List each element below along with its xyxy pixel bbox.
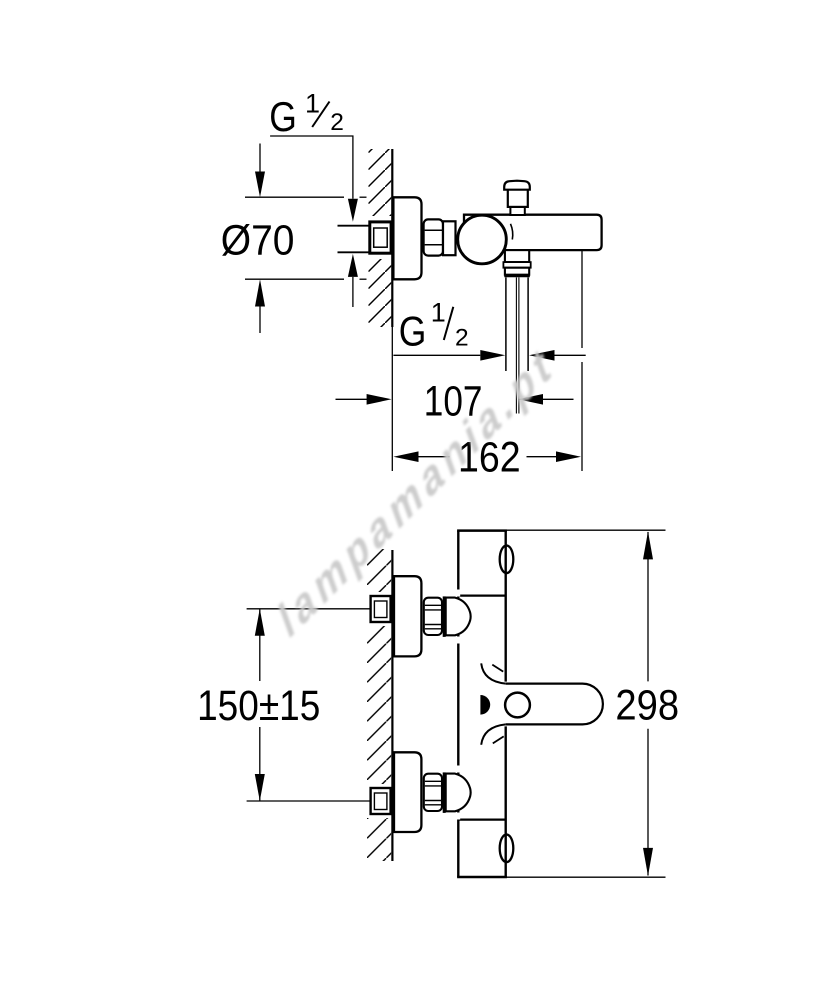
hose outer left line xyxy=(505,277,507,371)
bottom hex nut (bottom view) xyxy=(424,774,442,811)
top connection bar xyxy=(443,596,446,637)
Ø70 upper arrow xyxy=(255,172,265,198)
arrow right to hose left edge xyxy=(480,350,505,361)
150 extension line bottom xyxy=(247,800,371,802)
bottom escutcheon (bottom view) xyxy=(394,752,421,832)
spout bottom flare xyxy=(481,724,506,744)
bottom hex nut facet lines xyxy=(425,780,441,782)
spout outlet circle xyxy=(505,693,530,718)
298 extension line top xyxy=(506,529,666,531)
shower hose connector ring xyxy=(503,262,530,268)
bottom cap ellipse detail xyxy=(500,835,514,863)
dimension Ø70 extension line bottom xyxy=(245,278,344,280)
connector bottom bar xyxy=(504,275,530,278)
arrow up xyxy=(255,609,265,636)
spout U profile xyxy=(506,684,603,725)
150 extension line top xyxy=(247,608,371,610)
svg-text:G: G xyxy=(399,308,427,355)
spout half-disc detail xyxy=(480,695,490,715)
fraction slash (top G 1/2) xyxy=(312,102,329,128)
Ø70 lower arrow tail xyxy=(259,307,261,334)
diverter knob stem xyxy=(510,207,524,215)
wall hatching (bottom view) xyxy=(367,549,391,861)
dimension 150±15 line lower part xyxy=(259,727,261,801)
svg-text:2: 2 xyxy=(455,324,469,351)
bottom connection cone xyxy=(446,774,471,812)
hex nut facet line upper xyxy=(425,229,442,231)
white clearance around top union xyxy=(365,592,391,626)
white halo above bottom cone xyxy=(457,766,461,773)
hose outer right line xyxy=(527,277,529,371)
top union inner square xyxy=(374,601,387,618)
diverter knob body xyxy=(508,189,528,207)
dimension 107 left leader xyxy=(336,398,370,400)
Ø70 lower arrow xyxy=(255,279,265,306)
dimension 298 line upper part xyxy=(647,532,649,681)
top hex nut facet lines xyxy=(425,604,441,606)
dimension hose G1/2 left leader xyxy=(393,354,480,356)
leader line under G 1/2 xyxy=(270,136,353,199)
bottom union outer square xyxy=(371,788,391,814)
wall face line (thick part) xyxy=(391,149,393,327)
column bottom edge xyxy=(457,876,507,879)
arrow left to hose right edge xyxy=(529,350,555,361)
arrow down xyxy=(255,774,265,801)
diverter knob cap xyxy=(504,181,530,190)
white clearance around dash top xyxy=(355,194,368,202)
dimension 162 left arrow xyxy=(393,451,418,462)
dimension 162 left leader xyxy=(416,456,449,458)
column top edge xyxy=(457,529,507,532)
hose middle line b xyxy=(518,277,520,413)
white halo above top cone xyxy=(457,590,461,597)
arrow down to pipe top xyxy=(348,199,358,222)
spout top tick xyxy=(492,665,503,672)
wall hatching (top view) xyxy=(369,149,392,327)
escutcheon flange (top view) xyxy=(393,197,421,279)
svg-text:150±15: 150±15 xyxy=(197,682,320,730)
dimension Ø70 extension line top xyxy=(245,196,344,198)
svg-text:Ø70: Ø70 xyxy=(221,217,295,264)
pipe union fitting inner square xyxy=(374,228,388,247)
arrow left to hose centre xyxy=(518,394,543,405)
bottom connection bar xyxy=(443,772,446,813)
transition arc inside body xyxy=(511,224,513,240)
dimension 162 right arrow xyxy=(556,451,581,462)
column body right edge lower segment xyxy=(505,726,507,877)
column body right edge upper segment xyxy=(505,531,507,682)
dimension 107 right leader xyxy=(543,398,574,400)
cylinder between nut and valve xyxy=(443,221,456,255)
shower hose connector lower section xyxy=(505,268,529,275)
bottom union inner square xyxy=(374,793,387,810)
svg-text:2: 2 xyxy=(330,109,344,136)
faucet body (top view) xyxy=(464,215,602,250)
svg-text:G: G xyxy=(269,93,297,140)
top union outer square xyxy=(371,596,391,622)
spout top flare xyxy=(481,663,506,683)
dimension 150±15 line upper part xyxy=(259,609,261,681)
shower hose connector upper section xyxy=(505,250,529,262)
hex nut facet line lower xyxy=(425,244,442,246)
white clearance around inlet fitting xyxy=(366,216,392,259)
extension line for 162 (right, lower) xyxy=(581,362,583,471)
top cap division line xyxy=(458,594,505,596)
supply pipe top edge (top view) xyxy=(338,225,371,227)
top escutcheon (bottom view) xyxy=(394,576,421,656)
white clearance around bottom union xyxy=(365,784,391,818)
wall extension line (thin, continues to 162 dim) xyxy=(391,327,393,471)
supply pipe bottom edge (top view) xyxy=(338,251,371,253)
column body left edge xyxy=(457,531,459,877)
svg-text:1: 1 xyxy=(431,297,446,327)
watermark lampamania.pt xyxy=(273,332,559,650)
dimension hose G1/2 right leader xyxy=(555,354,586,356)
top hex nut (bottom view) xyxy=(424,598,442,635)
wall face line (bottom view) xyxy=(391,550,393,861)
top connection cone xyxy=(446,598,471,636)
white halo below bottom cone xyxy=(457,813,461,820)
dash of top extension line through wall xyxy=(360,196,367,198)
arrow up xyxy=(643,531,653,559)
arrow down xyxy=(643,848,653,876)
hex nut (top view) xyxy=(424,219,443,255)
dimension 162 right leader xyxy=(527,456,557,458)
white clearance around dash bottom xyxy=(355,276,368,284)
arrow up to pipe bottom xyxy=(348,254,358,277)
top cap ellipse detail xyxy=(500,546,514,574)
connection ball housing (circle) xyxy=(458,215,507,264)
dash of bottom extension line through wall xyxy=(360,278,367,280)
hose middle line a xyxy=(515,277,517,413)
pipe union fitting outer square xyxy=(370,222,391,253)
dimension 298 line lower part xyxy=(647,729,649,876)
bottom cap division line xyxy=(458,818,505,820)
extension line for 162 (right, upper) xyxy=(581,251,583,349)
Ø70 upper arrow tail xyxy=(259,144,261,172)
fraction slash (hose G 1/2) xyxy=(444,307,454,340)
leader line below pipe xyxy=(352,277,354,307)
298 extension line bottom xyxy=(506,876,666,878)
arrow right to wall xyxy=(367,394,392,405)
white halo below top cone xyxy=(457,637,461,644)
svg-text:1: 1 xyxy=(305,88,320,118)
svg-text:298: 298 xyxy=(615,682,679,729)
spout bottom tick xyxy=(493,736,504,743)
